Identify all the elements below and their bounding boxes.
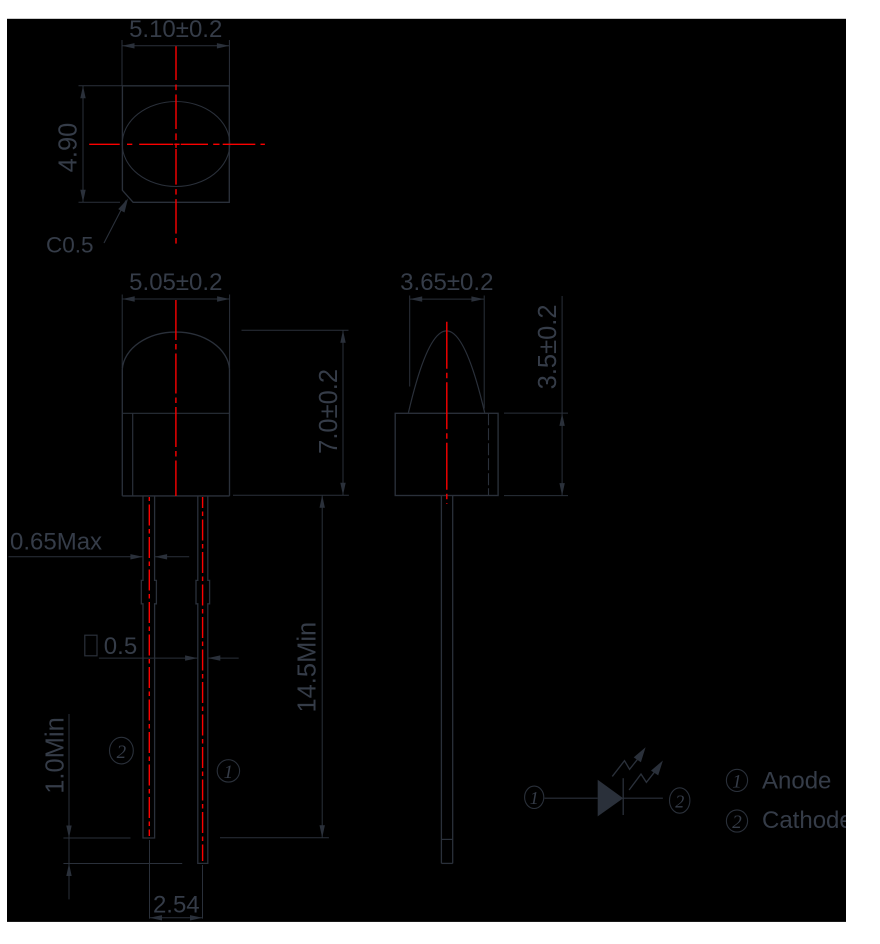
right lead red centerline	[202, 497, 204, 861]
arrow right-pointing at right lead left edge	[185, 655, 198, 660]
ext line bottom of 3.5 dim	[504, 495, 568, 497]
dim line 4.90	[82, 86, 84, 203]
front view: inner flange line	[132, 413, 134, 496]
dim line 3.65	[410, 298, 484, 300]
ext line left of 5.05 dim	[121, 295, 123, 369]
ext line right of 5.10 dim	[228, 40, 230, 86]
arrow left 3.65	[410, 296, 423, 301]
diode triangle	[598, 780, 624, 817]
svg-text:4.90: 4.90	[55, 123, 83, 173]
svg-text:1: 1	[732, 771, 742, 792]
front view: epoxy dome arc	[122, 332, 229, 369]
dim line 7.0	[342, 330, 344, 495]
svg-text:2.54: 2.54	[153, 892, 200, 919]
emission zigzag arrow 2	[629, 770, 656, 790]
arrow right 5.05	[217, 296, 230, 301]
ext line left of 5.10 dim	[121, 40, 123, 86]
arrow left-pointing at left lead right edge	[155, 554, 168, 559]
front view: left lead (cathode) with stand-off bump	[141, 496, 156, 838]
legend pin 1 balloon	[726, 769, 747, 791]
pin number 2 balloon (cathode lead)	[110, 737, 134, 764]
ext line top of 3.5 dim	[504, 412, 568, 414]
side view: red vertical centerline	[446, 322, 448, 504]
svg-text:Cathode: Cathode	[762, 807, 853, 834]
dim line 14.5Min	[321, 495, 323, 838]
arrowhead zigzag 2	[651, 761, 663, 776]
ext line right of 3.65	[483, 296, 485, 409]
svg-text:2: 2	[117, 742, 127, 763]
pin 2 balloon of symbol	[670, 788, 690, 813]
front view: right lead (anode) with stand-off bump	[196, 496, 210, 863]
dim line 5.05	[122, 298, 229, 300]
ext line right of 2.54	[202, 865, 204, 919]
arrow left 5.05	[122, 296, 135, 301]
front view: dome/base separation line	[122, 412, 229, 414]
dim line 3.5	[561, 296, 563, 496]
top view: lens ellipse	[122, 102, 230, 187]
ext line left of 3.65	[409, 296, 411, 387]
ext line at y=838	[63, 837, 130, 839]
side view: hidden flange dashed line	[488, 413, 490, 495]
ext line bottom of 7.0 dim / top of 14.5 dim	[233, 494, 349, 496]
svg-text:5.05±0.2: 5.05±0.2	[129, 269, 222, 296]
arrow down 7.0	[340, 483, 345, 496]
svg-text:Anode: Anode	[762, 768, 831, 795]
leader line C0.5	[104, 201, 126, 244]
pin 1 balloon of symbol	[525, 786, 544, 808]
svg-text:3.5±0.2: 3.5±0.2	[534, 304, 562, 389]
svg-text:5.10±0.2: 5.10±0.2	[129, 16, 222, 43]
ext line right of 5.05 dim	[229, 295, 231, 369]
dim leader right 0.65Max	[155, 556, 190, 558]
svg-text:14.5Min: 14.5Min	[294, 622, 322, 713]
emission zigzag arrow 1	[612, 757, 639, 777]
arrow right 2.54	[190, 915, 203, 920]
left lead red centerline	[148, 497, 150, 836]
svg-text:C0.5: C0.5	[46, 233, 94, 258]
arrow down 3.5	[559, 483, 564, 496]
side view: body rectangle	[395, 413, 498, 495]
svg-text:7.0±0.2: 7.0±0.2	[315, 369, 343, 454]
side view lead left edge	[440, 496, 442, 864]
dim leader right 0.5	[208, 657, 239, 659]
front view: red vertical centerline	[175, 300, 177, 496]
arrow up 7.0	[340, 330, 345, 343]
ext line top of 4.90 dim	[79, 85, 122, 87]
top view: red horizontal centerline (dash-dot segments)	[89, 143, 120, 145]
arrow right-pointing at left lead left edge	[130, 554, 143, 559]
dim line 5.10	[122, 45, 229, 47]
arrow left-pointing at right lead right edge	[208, 655, 221, 660]
arrow up 3.5	[559, 413, 564, 426]
ext line bottom of 14.5 dim	[220, 837, 329, 839]
arrow up 14.5Min	[320, 495, 325, 508]
square symbol of □0.5	[85, 635, 97, 656]
arrow right 5.10	[217, 43, 230, 48]
svg-text:3.65±0.2: 3.65±0.2	[400, 269, 493, 296]
side view lead bottom end	[441, 862, 452, 864]
front view: body bottom edge	[122, 495, 229, 497]
arrow right 3.65	[471, 296, 484, 301]
arrowhead zigzag 1	[634, 747, 646, 762]
top view: red vertical centerline (dash-dot segments)	[175, 46, 177, 80]
ext line left of 2.54	[149, 840, 151, 919]
top view: package square outline with C0.5 chamfer	[122, 86, 229, 203]
side view lead: short-lead end line	[441, 838, 452, 840]
arrow up 4.90	[80, 86, 85, 99]
arrow down tip at lead end 838	[66, 826, 71, 839]
svg-text:0.5: 0.5	[104, 633, 137, 660]
arrow left 2.54	[150, 915, 163, 920]
svg-text:1.0Min: 1.0Min	[41, 717, 69, 794]
dim leader left 0.65Max	[9, 556, 143, 558]
pin number 1 balloon (anode lead)	[217, 760, 239, 782]
side view: dome parabolic profile	[408, 331, 484, 413]
leader arrow C0.5	[118, 199, 128, 213]
dim line 2.54	[150, 917, 203, 919]
arrow left 5.10	[122, 43, 135, 48]
ext line bottom of 4.90 dim	[79, 201, 121, 203]
svg-text:2: 2	[675, 792, 684, 812]
ext line top of 7.0 dim	[242, 329, 349, 331]
legend pin 2 balloon	[726, 810, 747, 832]
front view: body right side	[229, 369, 231, 496]
svg-text:0.65Max: 0.65Max	[10, 529, 102, 556]
anode wire	[545, 797, 598, 799]
cathode wire	[623, 797, 663, 799]
arrow down 4.90	[80, 190, 85, 203]
arrow up tip at lead end 863.5	[66, 864, 71, 877]
side view lead right edge	[452, 496, 454, 864]
ext line at y=863.5	[63, 863, 182, 865]
cathode bar	[622, 778, 624, 815]
front view: body left side	[121, 369, 123, 496]
arrow down 14.5Min	[320, 825, 325, 838]
dim leader left 0.5	[99, 657, 198, 659]
dim line 1.0Min	[68, 714, 70, 899]
svg-text:1: 1	[530, 788, 539, 808]
svg-text:2: 2	[732, 812, 742, 833]
svg-text:1: 1	[224, 762, 234, 783]
